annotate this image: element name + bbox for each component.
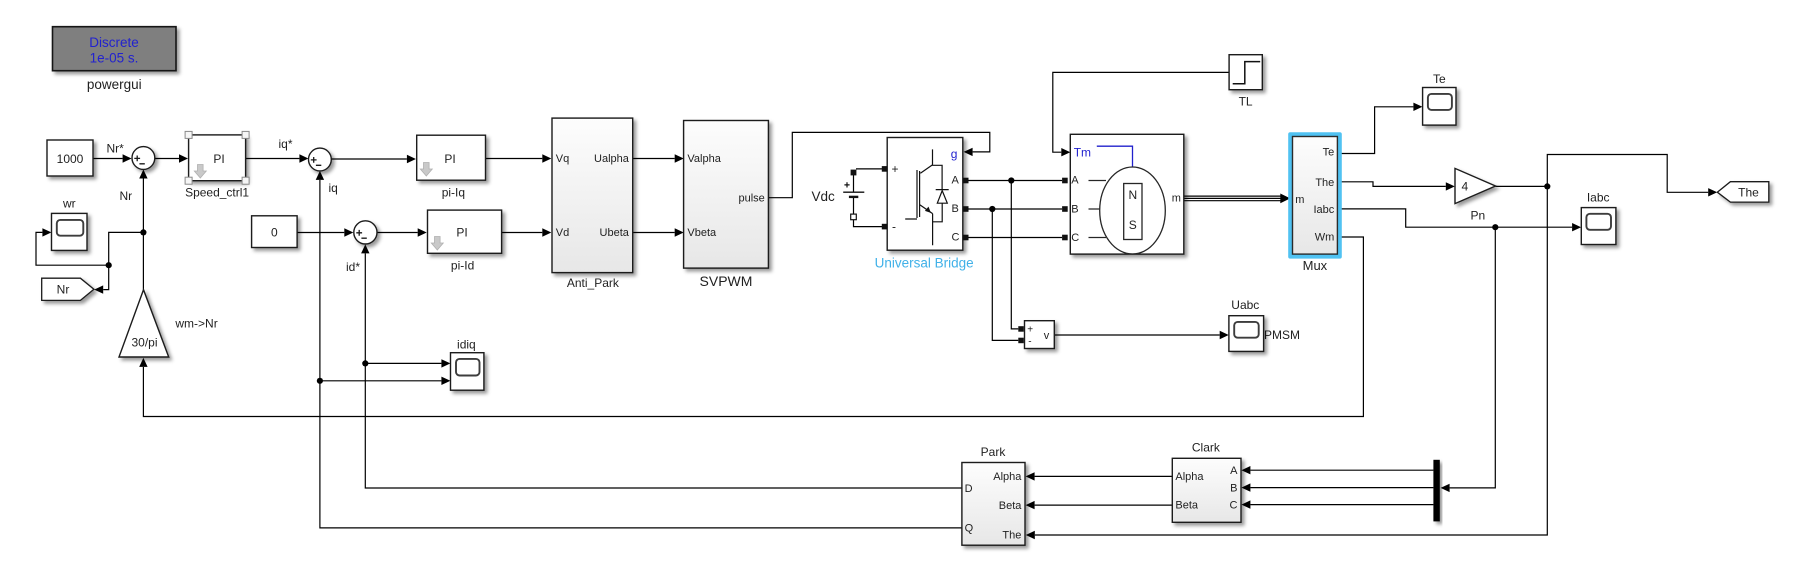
node junction id to idiq xyxy=(362,360,368,366)
svg-text:30/pi: 30/pi xyxy=(131,336,157,350)
wire SVPWM pulse to Universal Bridge g xyxy=(768,132,989,197)
svg-text:Wm: Wm xyxy=(1315,232,1335,244)
svg-text:Anti_Park: Anti_Park xyxy=(567,276,620,290)
svg-text:pulse: pulse xyxy=(739,193,765,205)
svg-text:4: 4 xyxy=(1462,180,1469,194)
svg-text:Tm: Tm xyxy=(1074,145,1091,159)
wire motor m to Mux (vector triple line) xyxy=(1184,196,1284,201)
node junction Iabc xyxy=(1492,224,1498,230)
svg-text:m: m xyxy=(1172,192,1181,204)
wire Park D to sum3 (id feedback) xyxy=(365,253,962,488)
svg-text:wm->Nr: wm->Nr xyxy=(174,317,217,331)
scope Uabc xyxy=(1229,298,1264,351)
svg-text:Iabc: Iabc xyxy=(1314,204,1335,216)
svg-text:Universal Bridge: Universal Bridge xyxy=(875,256,974,271)
powergui block xyxy=(53,27,177,92)
wire 0 to sum3 xyxy=(297,232,344,234)
svg-text:A: A xyxy=(952,175,960,187)
svg-text:Alpha: Alpha xyxy=(1175,471,1204,483)
wire id branch to idiq scope input1 xyxy=(365,362,441,364)
svg-text:S: S xyxy=(1129,218,1137,232)
wire Anti_Park Ualpha to SVPWM Valpha xyxy=(633,158,675,160)
svg-text:A: A xyxy=(1230,465,1238,477)
constant 1000 xyxy=(47,140,93,176)
svg-text:The: The xyxy=(1738,186,1759,200)
svg-text:PI: PI xyxy=(213,152,224,166)
node tap phase B xyxy=(989,206,995,212)
scope Iabc xyxy=(1581,191,1616,245)
wire Nr branch to Nr tag xyxy=(103,265,109,289)
node junction Nr xyxy=(140,229,146,235)
svg-text:Clark: Clark xyxy=(1192,441,1221,455)
PI controller Speed_ctrl1 (selected) xyxy=(185,131,249,199)
sum junction sum3 xyxy=(354,221,377,244)
scope Te xyxy=(1423,72,1456,125)
wire iq branch to idiq scope input2 xyxy=(320,380,442,382)
svg-text:pi-Iq: pi-Iq xyxy=(442,186,465,200)
voltage measurement VM xyxy=(1018,321,1054,349)
svg-text:Te: Te xyxy=(1323,146,1335,158)
svg-text:m: m xyxy=(1295,194,1304,206)
WIRES_GROUP xyxy=(36,72,1717,539)
svg-text:v: v xyxy=(1044,330,1050,342)
svg-text:Nr: Nr xyxy=(57,283,70,297)
wire Vdc plus to bridge xyxy=(856,168,882,170)
wire phase A tap to VM plus xyxy=(1011,181,1018,329)
svg-text:Nr: Nr xyxy=(120,189,133,203)
svg-text:Vdc: Vdc xyxy=(812,189,836,204)
node junction Nr branch xyxy=(106,262,112,268)
wire sum1 to Speed_ctrl1 xyxy=(155,158,179,160)
svg-text:g: g xyxy=(951,147,958,161)
svg-text:-: - xyxy=(892,220,896,234)
svg-text:Valpha: Valpha xyxy=(687,153,721,165)
wire Mux The to gain Pn xyxy=(1337,182,1445,187)
svg-text:Mux: Mux xyxy=(1303,258,1328,273)
DC source Vdc xyxy=(812,170,865,220)
svg-text:idiq: idiq xyxy=(457,338,476,352)
wire phase A bridge to motor xyxy=(969,180,1063,182)
wire Anti_Park Ubeta to SVPWM Vbeta xyxy=(633,232,675,234)
svg-text:B: B xyxy=(1071,204,1078,216)
svg-text:Ubeta: Ubeta xyxy=(600,227,630,239)
Universal Bridge block xyxy=(875,138,974,271)
wire gain 30/pi output to sum1 (Nr feedback) xyxy=(142,179,144,290)
svg-text:Alpha: Alpha xyxy=(993,471,1022,483)
constant 0 xyxy=(252,216,298,248)
wire gain Pn to The tag xyxy=(1496,155,1709,193)
wire Clark Alpha to Park Alpha xyxy=(1035,475,1173,477)
Mux block (selected, cyan) xyxy=(1288,132,1342,273)
wire Mux Iabc to Iabc scope xyxy=(1337,209,1572,227)
goto tag Nr xyxy=(42,278,94,300)
wire pi-Id to Anti_Park Vd xyxy=(502,232,543,234)
svg-text:A: A xyxy=(1071,175,1079,187)
goto tag The xyxy=(1717,182,1769,202)
svg-text:D: D xyxy=(965,483,973,495)
subsystem Clark (mirrored) xyxy=(1172,441,1241,523)
demux (black bar) xyxy=(1433,460,1439,522)
subsystem Park (mirrored) xyxy=(962,445,1025,545)
wire phase C bridge to motor xyxy=(969,237,1063,239)
wire pi-Iq to Anti_Park Vq xyxy=(486,158,543,160)
wire sum3 to pi-Id xyxy=(377,232,418,234)
wire Park Q to sum2 (iq feedback) xyxy=(320,180,962,528)
svg-text:1000: 1000 xyxy=(57,152,84,166)
svg-text:id*: id* xyxy=(346,260,360,274)
svg-text:C: C xyxy=(952,232,960,244)
svg-text:B: B xyxy=(952,203,959,215)
svg-text:+: + xyxy=(1027,325,1033,336)
node junction iq to idiq xyxy=(317,378,323,384)
wire 1000 to sum1, label Nr* xyxy=(93,158,123,160)
TEXT_GROUP xyxy=(107,137,361,274)
svg-text:iq: iq xyxy=(329,181,338,195)
svg-text:Q: Q xyxy=(965,523,974,535)
wire Clark Beta to Park Beta xyxy=(1035,504,1173,506)
wire Iabc branch down to demux xyxy=(1450,227,1496,488)
wire phase B tap to VM minus xyxy=(992,209,1018,340)
svg-text:Uabc: Uabc xyxy=(1231,298,1259,312)
svg-text:pi-Id: pi-Id xyxy=(451,259,474,273)
svg-text:-: - xyxy=(1028,336,1031,347)
svg-text:The: The xyxy=(1315,177,1334,189)
wire demux B to Clark B xyxy=(1250,487,1433,489)
svg-text:Nr*: Nr* xyxy=(107,142,125,156)
gain Pn (4) xyxy=(1455,168,1496,222)
bridge IGBT and diode icon xyxy=(905,149,949,245)
gain 30/pi (wm to Nr) xyxy=(119,290,218,357)
svg-text:TL: TL xyxy=(1239,95,1253,109)
svg-text:Beta: Beta xyxy=(999,500,1023,512)
svg-text:Speed_ctrl1: Speed_ctrl1 xyxy=(185,186,249,200)
svg-text:Beta: Beta xyxy=(1175,500,1199,512)
svg-text:iq*: iq* xyxy=(279,137,293,151)
svg-text:Vq: Vq xyxy=(556,153,569,165)
svg-text:PI: PI xyxy=(444,152,455,166)
wire The branch down to Park The xyxy=(1035,186,1548,535)
wire Nr branch to wr scope xyxy=(36,232,109,265)
wire demux C to Clark C xyxy=(1250,504,1433,506)
wire VM v to Uabc scope xyxy=(1054,334,1219,336)
svg-text:Vbeta: Vbeta xyxy=(687,227,717,239)
wire phase B bridge to motor xyxy=(969,208,1063,210)
svg-text:Te: Te xyxy=(1433,72,1446,86)
PI controller pi-Id xyxy=(428,210,502,272)
wire Mux Te to Te scope xyxy=(1337,107,1413,154)
svg-text:wr: wr xyxy=(62,197,76,211)
wire sum2 to pi-Iq xyxy=(331,158,407,160)
svg-text:powergui: powergui xyxy=(87,77,142,92)
wire TL to motor Tm xyxy=(1053,72,1229,152)
PI controller pi-Iq xyxy=(417,135,486,199)
step block TL xyxy=(1229,55,1262,109)
sum junction sum2 xyxy=(309,148,332,171)
svg-text:C: C xyxy=(1071,232,1079,244)
svg-text:Pn: Pn xyxy=(1471,209,1486,223)
svg-text:SVPWM: SVPWM xyxy=(700,273,753,289)
svg-text:Park: Park xyxy=(981,445,1007,459)
node junction gain output xyxy=(1544,183,1550,189)
svg-text:PI: PI xyxy=(456,226,467,240)
scope wr xyxy=(52,197,88,251)
wire demux A to Clark A xyxy=(1250,469,1433,471)
PMSM motor block xyxy=(1062,134,1300,341)
svg-text:B: B xyxy=(1230,482,1237,494)
svg-text:Ualpha: Ualpha xyxy=(594,153,630,165)
svg-text:Iabc: Iabc xyxy=(1587,191,1610,205)
svg-text:Vd: Vd xyxy=(556,227,569,239)
wire Vdc minus to bridge xyxy=(854,220,883,227)
svg-text:+: + xyxy=(892,162,899,176)
wire Speed_ctrl1 to sum2, label iq* xyxy=(246,158,300,160)
svg-text:N: N xyxy=(1128,188,1137,202)
svg-text:C: C xyxy=(1230,500,1238,512)
subsystem SVPWM xyxy=(684,121,769,290)
node tap phase A xyxy=(1008,177,1014,183)
svg-text:1e-05 s.: 1e-05 s. xyxy=(90,51,139,66)
svg-text:Discrete: Discrete xyxy=(89,35,139,50)
subsystem Anti_Park xyxy=(552,118,633,290)
wire Mux Wm feedback to gain 30/pi xyxy=(143,237,1363,417)
svg-text:PMSM: PMSM xyxy=(1264,328,1300,342)
svg-text:The: The xyxy=(1002,529,1021,541)
wire Nr branch left xyxy=(109,232,144,265)
sum junction sum1 xyxy=(132,147,155,170)
bridge ports xyxy=(882,166,888,172)
svg-text:0: 0 xyxy=(271,226,278,240)
scope idiq xyxy=(451,338,484,391)
